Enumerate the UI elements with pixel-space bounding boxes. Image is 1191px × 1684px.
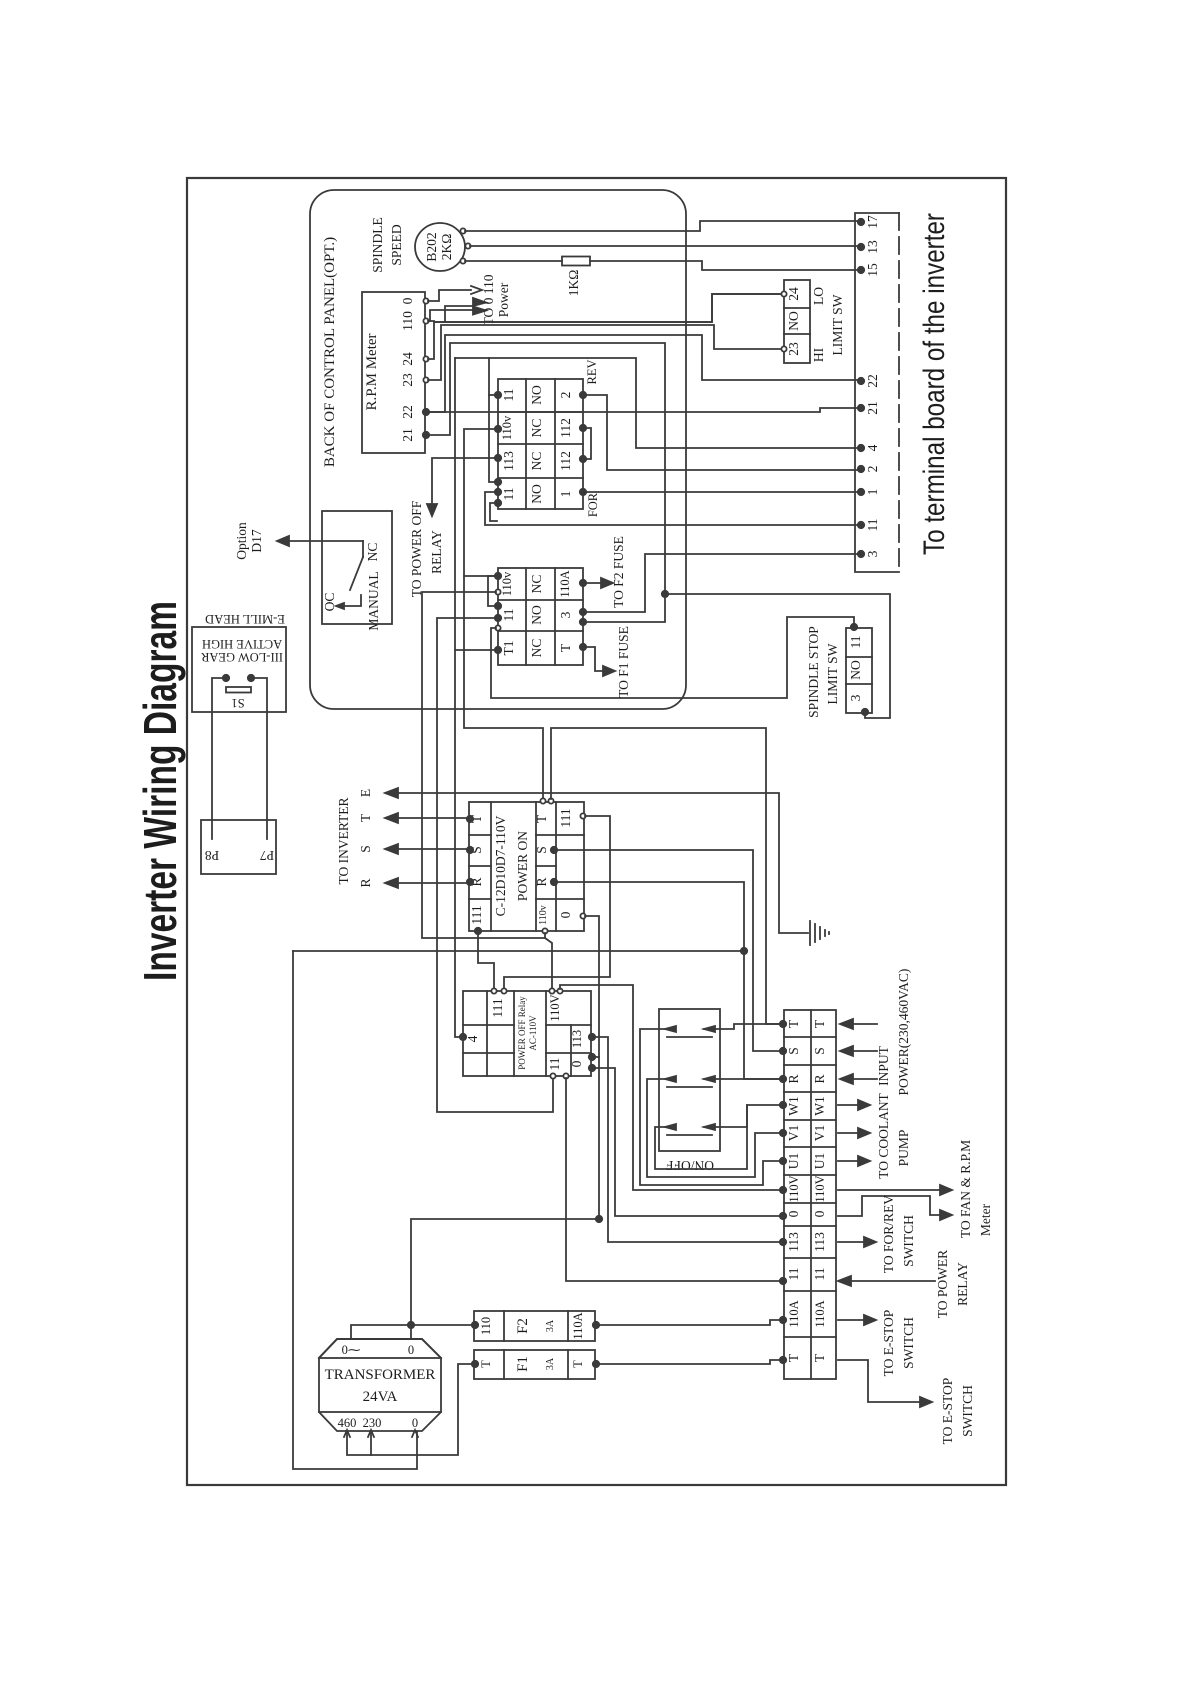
svg-text:23: 23 [400,373,415,387]
svg-text:24: 24 [400,352,415,366]
relay K2 power-off contact block [498,568,583,665]
svg-text:NO: NO [786,311,801,331]
terminal board of the inverter [855,213,899,572]
connector P8 P7 [201,820,276,874]
svg-text:NO: NO [529,385,544,405]
svg-text:SPEED: SPEED [389,224,404,266]
arrow TO E-STOP SWITCH [838,1319,864,1321]
power off relay coil block [463,991,591,1076]
fuse F1 [474,1350,595,1379]
svg-text:T: T [812,1353,827,1362]
resistor 1K ohm [562,257,590,266]
svg-text:V1: V1 [786,1125,801,1142]
strip arrows: INPUT POWER R S T [853,1023,877,1025]
arrow TO POWER RELAY [851,1280,935,1282]
main terminal strip [784,1010,836,1379]
svg-text:TO POWER OFF: TO POWER OFF [409,500,424,597]
coil wires to strip [560,985,781,1190]
svg-text:TO F2 FUSE: TO F2 FUSE [611,536,626,608]
wire NC to Option D17 arrow [289,540,363,542]
bottom T wire to E-STOP [838,1360,920,1402]
svg-text:LIMIT SW: LIMIT SW [830,294,845,355]
svg-text:F1: F1 [515,1356,531,1372]
svg-text:TO FOR/REV: TO FOR/REV [881,1195,896,1273]
wire meter 23 to HI/LO 23 [428,325,781,380]
svg-text:Power: Power [496,282,511,317]
svg-text:REV: REV [585,360,599,385]
potentiometer B202 2K ohm [415,223,465,271]
ON/OFF switch box [659,1009,720,1151]
stub 110v net to relay2 [464,575,495,577]
svg-text:T: T [558,643,573,652]
wire contactor 111 right to coil [504,816,610,989]
svg-text:1KΩ: 1KΩ [566,270,581,297]
svg-text:3A: 3A [545,1319,556,1332]
svg-text:NC: NC [365,543,380,562]
R.P.M Meter box [362,292,425,453]
HI LO LIMIT SW box [784,280,810,363]
jumper 11-11 and wire to board 4 [489,358,496,482]
svg-text:0⁓: 0⁓ [342,1343,361,1357]
svg-text:110v: 110v [500,571,514,596]
stub K2 11 to 110v net [488,576,496,606]
svg-text:AC-110V: AC-110V [528,1015,538,1051]
svg-text:RELAY: RELAY [955,1262,970,1306]
wire pot mid to board 13 [470,245,858,247]
svg-text:SWITCH: SWITCH [901,1215,916,1267]
svg-text:SWITCH: SWITCH [901,1317,916,1369]
arrows TO COOLANT PUMP [838,1104,858,1106]
wire pot bottom through 1K resistor to board 15 [465,260,562,262]
svg-text:V1: V1 [812,1125,827,1142]
svg-text:113: 113 [501,451,516,471]
svg-text:SPINDLE: SPINDLE [370,217,385,273]
relay K2 terminals [495,573,501,579]
spindle stop limit switch [846,628,872,713]
svg-text:T: T [786,1019,801,1028]
wires S1 to P7 P8 [212,678,226,839]
wire K2 T1 to coil 4 [455,649,496,651]
svg-text:P8: P8 [205,848,220,863]
arrow TO F2 FUSE [585,582,601,584]
svg-text:Meter: Meter [978,1203,993,1236]
svg-text:F2: F2 [515,1318,531,1334]
wire relay K2 3 to board 3 [585,554,858,612]
relay K1 terminals [495,392,501,398]
switch S1 [223,675,229,681]
wire meter 24 to board 22 [428,294,782,359]
svg-text:2: 2 [558,392,573,399]
wire contactor T top2 to strip T [551,728,781,1024]
wire relay K1 2 to board 2 (REV) [585,395,858,470]
svg-text:NC: NC [529,639,544,658]
svg-text:NO: NO [529,484,544,504]
svg-text:111: 111 [469,905,484,924]
wire relay K1 1 to board 1 (FOR) [585,491,858,493]
svg-text:110A: 110A [558,570,572,597]
svg-text:21: 21 [865,401,880,415]
svg-text:R: R [786,1074,801,1083]
svg-text:D17: D17 [249,529,264,552]
svg-text:T: T [571,1360,585,1368]
wire relay K1 11b stub [490,503,497,521]
svg-text:W1: W1 [786,1096,801,1116]
svg-text:21: 21 [400,428,415,442]
svg-text:R: R [358,878,373,887]
svg-text:ACTIVE HIGH: ACTIVE HIGH [202,637,282,651]
wire meter 22 to board 21 [428,408,858,412]
svg-text:24: 24 [786,287,801,301]
svg-text:110A: 110A [813,1300,827,1327]
wire meter 0 to power arrow [428,290,471,301]
svg-text:0: 0 [558,911,573,918]
wire meter 21 to relay 110v [428,343,665,622]
svg-text:LIMIT SW: LIMIT SW [825,643,840,704]
svg-text:111: 111 [490,998,505,1017]
svg-text:TRANSFORMER: TRANSFORMER [325,1367,436,1383]
svg-text:To terminal board of the inver: To terminal board of the inverter [918,213,951,555]
svg-text:FOR: FOR [586,492,600,517]
svg-text:C-12D10D7-110V: C-12D10D7-110V [493,815,508,916]
ground symbol [809,921,811,945]
svg-text:POWER ON: POWER ON [515,831,530,901]
svg-text:P7: P7 [260,848,275,863]
svg-text:230: 230 [363,1416,382,1430]
svg-text:0: 0 [812,1210,827,1217]
svg-text:4: 4 [865,444,880,451]
fuse F2 [474,1311,595,1341]
svg-text:11: 11 [501,609,516,622]
svg-text:TO 0 110: TO 0 110 [481,274,496,325]
svg-text:Inverter Wiring Diagram: Inverter Wiring Diagram [134,601,186,981]
svg-text:TO E-STOP: TO E-STOP [881,1310,896,1377]
svg-text:110A: 110A [571,1312,585,1339]
svg-text:2KΩ: 2KΩ [439,234,454,261]
wire contactor 110v bottom to coil [545,933,552,989]
wires T S R to contactor [398,817,468,819]
svg-text:NC: NC [529,575,544,594]
svg-text:3: 3 [865,550,880,557]
wire contactor 0 to transformer 0 [411,916,599,1339]
wire relay K2 T1col to spindle stop 11 [491,617,854,698]
svg-text:BACK OF CONTROL PANEL(OPT.): BACK OF CONTROL PANEL(OPT.) [322,237,338,467]
svg-text:RELAY: RELAY [429,530,444,574]
svg-text:11: 11 [786,1268,801,1281]
wire E to ground [398,793,808,933]
svg-text:T: T [479,1360,493,1368]
svg-text:1: 1 [558,491,573,498]
svg-text:SWITCH: SWITCH [960,1385,975,1437]
svg-text:TO E-STOP: TO E-STOP [940,1378,955,1445]
svg-text:SPINDLE STOP: SPINDLE STOP [806,626,821,718]
meter terminals [423,298,428,303]
svg-text:0: 0 [786,1210,801,1217]
svg-text:11: 11 [501,389,516,402]
svg-text:0: 0 [569,1060,584,1067]
contactor terminals [467,816,473,822]
svg-text:112: 112 [558,418,573,438]
svg-text:R: R [534,877,549,886]
svg-text:22: 22 [865,374,880,388]
svg-text:Option: Option [234,522,249,560]
arrow TO FOR/REV SWITCH [838,1241,864,1243]
svg-text:LO: LO [811,287,826,305]
svg-text:23: 23 [786,342,801,356]
svg-text:1: 1 [865,489,880,496]
wire T1 bus down to relay coil 4 [455,358,461,1037]
svg-text:13: 13 [865,240,880,254]
svg-text:R: R [812,1074,827,1083]
svg-text:22: 22 [400,405,415,419]
svg-text:T: T [358,813,373,822]
svg-text:TO FAN & R.P.M: TO FAN & R.P.M [958,1140,973,1238]
svg-text:112: 112 [558,451,573,471]
svg-text:0: 0 [400,297,415,304]
switch contact [362,541,364,557]
transformer bottom terminal arrows [347,1364,473,1455]
arrow TO F1 FUSE [585,647,603,671]
control panel enclosure (rounded box) [310,190,686,709]
svg-text:4: 4 [465,1035,480,1042]
svg-text:T: T [534,814,549,823]
svg-text:NC: NC [529,419,544,438]
svg-text:NC: NC [529,452,544,471]
E-MILL HEAD switch box [192,627,286,712]
svg-text:113: 113 [812,1232,827,1252]
outer border frame [187,178,1006,1485]
svg-text:POWER(230,460VAC): POWER(230,460VAC) [896,969,911,1096]
svg-text:U1: U1 [812,1153,827,1170]
svg-text:11: 11 [865,519,880,532]
svg-text:T: T [786,1353,801,1362]
svg-text:110: 110 [479,1317,493,1335]
svg-text:110V: 110V [548,994,562,1021]
arrows TO FAN & RPM meter [838,1189,940,1191]
wire bus 358 to board 4 [455,358,858,448]
switch contacts [665,1026,676,1032]
svg-text:24VA: 24VA [363,1389,398,1405]
svg-text:110v: 110v [500,415,514,440]
svg-text:S: S [786,1047,801,1055]
svg-text:INPUT: INPUT [876,1045,891,1086]
svg-text:T1: T1 [501,641,516,656]
wire 110v bus to contactor coil [464,429,543,799]
svg-text:POWER OFF Relay: POWER OFF Relay [517,996,527,1070]
wire F1 T to strip [598,1360,781,1364]
svg-text:TO F1 FUSE: TO F1 FUSE [616,626,631,698]
svg-text:S: S [534,846,549,854]
svg-text:110: 110 [400,311,415,331]
svg-text:E: E [358,789,373,797]
svg-text:17: 17 [865,215,880,229]
wire contactor R to strip R [556,882,781,1079]
strip terminals [780,1021,786,1027]
svg-text:III-LOW GEAR: III-LOW GEAR [200,650,283,664]
OC / MANUAL switch box [322,511,392,624]
wire transformer sec to F2 110 [351,1325,473,1339]
svg-text:110V: 110V [787,1175,801,1202]
long bus wire 951 [293,950,744,952]
svg-text:113: 113 [570,1030,584,1048]
switch wires right side [704,1024,781,1029]
svg-text:11: 11 [812,1268,827,1281]
svg-text:3A: 3A [545,1357,556,1370]
wire relay K2 T to spindle stop 3 [665,594,890,718]
svg-text:11: 11 [848,636,863,649]
svg-text:TO COOLANT: TO COOLANT [876,1092,891,1178]
board terminals [858,219,864,225]
svg-text:S: S [812,1047,827,1055]
svg-text:S1: S1 [231,696,244,710]
svg-text:0: 0 [408,1343,414,1357]
svg-text:OC: OC [322,593,337,612]
wire meter 22 to board 22 via bus [428,335,858,412]
svg-text:MANUAL: MANUAL [366,571,381,630]
svg-text:S: S [358,845,373,853]
svg-text:B202: B202 [424,232,439,261]
wire F2 110A to strip [598,1320,781,1325]
svg-text:15: 15 [865,263,880,277]
svg-text:11: 11 [501,488,516,501]
wire contactor 111 left to coil [478,933,494,989]
node junction 665/594 [662,591,668,597]
svg-text:R.P.M Meter: R.P.M Meter [364,333,380,410]
relay K1 FOR/REV contact block [498,379,583,509]
wire K2 T1 col to coil circuit [437,618,553,1112]
switch wires left side [640,1029,781,1185]
svg-text:110V: 110V [813,1175,827,1202]
svg-text:T: T [812,1019,827,1028]
svg-text:PUMP: PUMP [896,1130,911,1167]
svg-text:113: 113 [786,1232,801,1252]
svg-text:TO INVERTER: TO INVERTER [336,797,351,884]
svg-text:3: 3 [558,611,573,618]
transformer 24VA [319,1358,441,1412]
svg-text:TO POWER: TO POWER [935,1250,950,1318]
svg-text:110A: 110A [787,1300,801,1327]
wire relay K1 11 to board 11 [485,492,858,525]
svg-text:W1: W1 [812,1096,827,1116]
svg-text:110v: 110v [538,905,549,925]
contactor C-12D10D7-110V POWER ON [469,802,584,931]
svg-text:ON/OFF: ON/OFF [666,1158,715,1173]
TO INVERTER arrows R S T E [336,789,373,888]
svg-text:NO: NO [529,605,544,625]
arrow TO POWER OFF RELAY [432,458,496,504]
svg-text:HI: HI [811,347,826,362]
wire K2 110v col down to contactor 110v bottom [422,592,545,938]
jumper 112-112 [585,428,591,459]
svg-text:NO: NO [848,660,863,680]
wire pot top to board 17 [465,221,858,231]
svg-text:E-MILL HEAD: E-MILL HEAD [205,612,285,626]
svg-text:111: 111 [558,808,573,827]
svg-text:11: 11 [547,1058,562,1071]
svg-text:2: 2 [865,466,880,473]
wire contactor S to strip S [556,850,781,1051]
svg-text:U1: U1 [786,1153,801,1170]
svg-text:3: 3 [848,694,863,701]
